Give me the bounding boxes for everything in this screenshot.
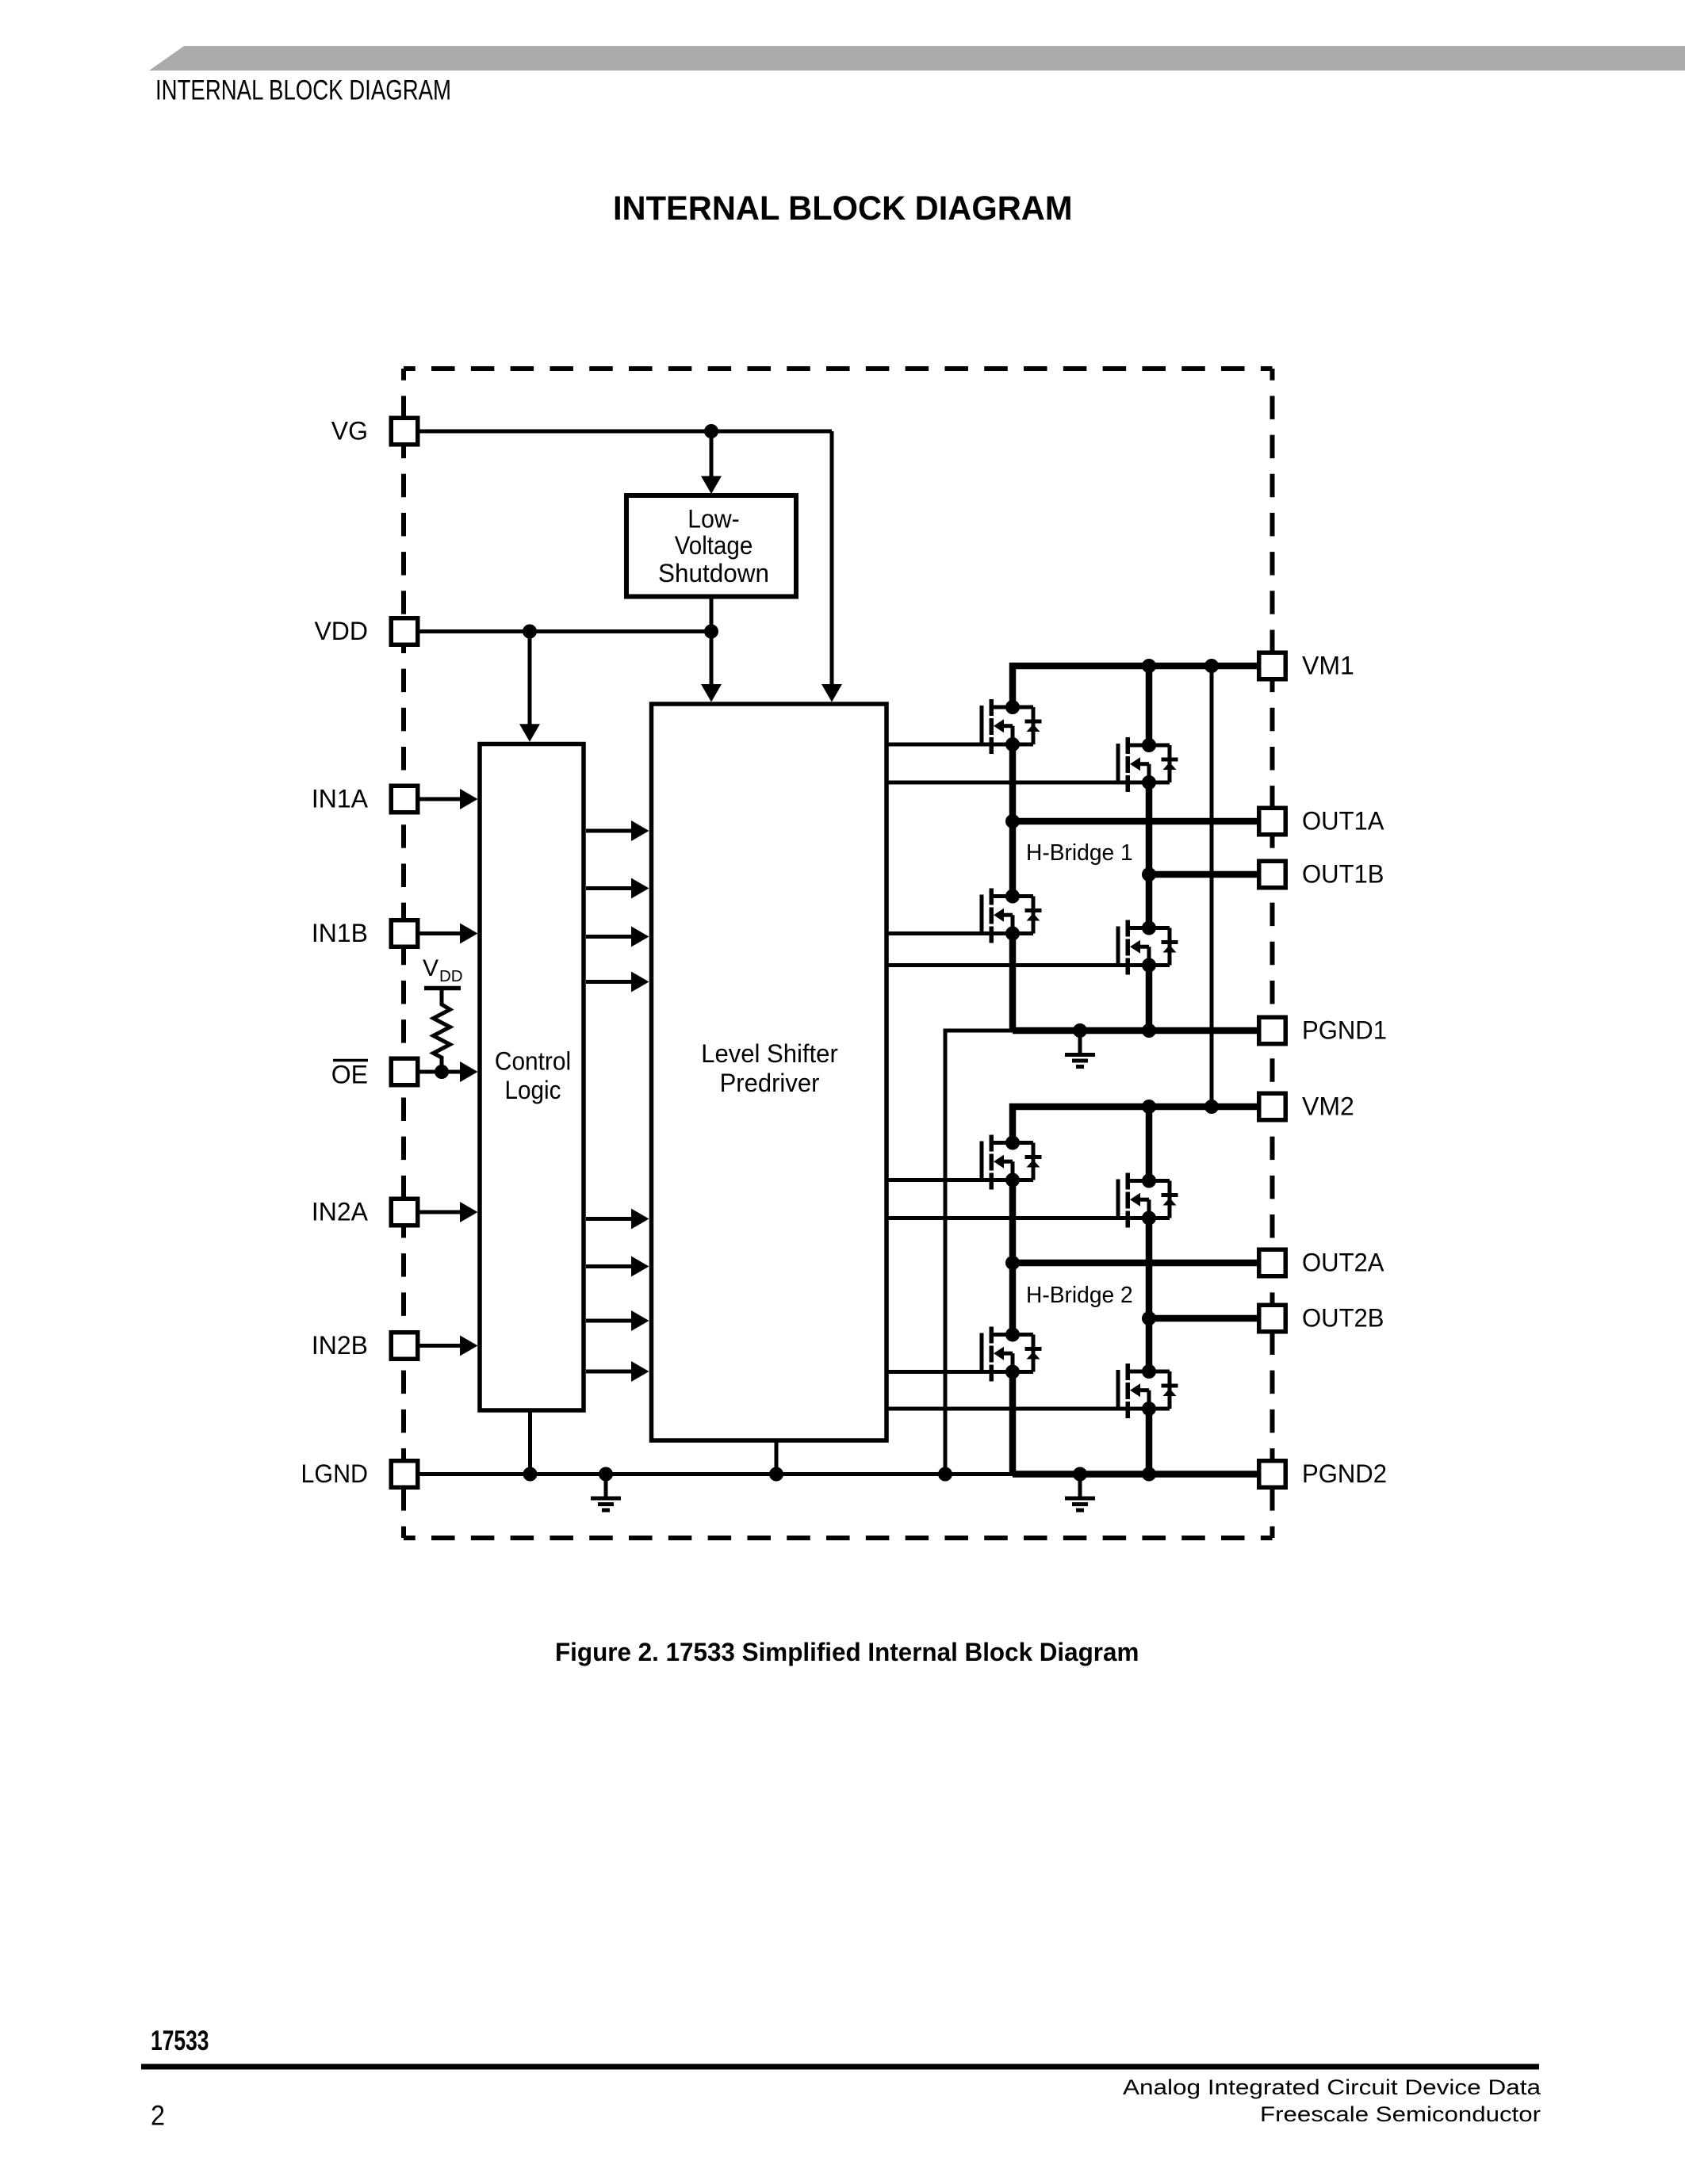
wire predriver to Q3 gate: [887, 931, 1033, 935]
wire VM1 bus: [1013, 666, 1258, 707]
pin LGND: [391, 1461, 418, 1488]
wire VM1 to Q2 drain: [1146, 666, 1153, 745]
pin VM1: [1259, 652, 1286, 679]
svg-text:OUT2A: OUT2A: [1302, 1249, 1384, 1277]
wire control to predriver 8: [586, 1370, 631, 1374]
wire IN2A input: [418, 1211, 461, 1214]
wire PGND1 to ground bus: [945, 1031, 1013, 1474]
wire OUT1A row: [1013, 818, 1258, 825]
svg-text:DD: DD: [439, 967, 463, 985]
svg-text:V: V: [423, 955, 438, 981]
svg-text:OUT2B: OUT2B: [1302, 1304, 1384, 1333]
wire control to predriver 3: [586, 935, 631, 939]
transistor Q1: [980, 699, 1042, 754]
wire control to predriver 2: [586, 886, 631, 890]
svg-text:Predriver: Predriver: [720, 1069, 820, 1097]
pin PGND1: [1259, 1017, 1286, 1044]
svg-text:INTERNAL BLOCK DIAGRAM: INTERNAL BLOCK DIAGRAM: [613, 189, 1073, 228]
node PGND2 Q8 junction: [1142, 1467, 1156, 1482]
IC boundary dashed box: [404, 366, 1273, 371]
wire Q5 source to Q7 drain: [1009, 1180, 1017, 1335]
transistor Q7: [980, 1327, 1042, 1382]
pin VM2: [1259, 1093, 1286, 1120]
node VDD junction 1: [523, 625, 537, 639]
svg-text:H-Bridge 1: H-Bridge 1: [1026, 840, 1133, 866]
node OUT1A junction: [1005, 814, 1020, 828]
pin IN2A: [391, 1199, 418, 1226]
svg-text:IN2B: IN2B: [312, 1331, 368, 1360]
svg-text:IN1B: IN1B: [312, 919, 368, 947]
svg-text:Figure 2. 17533 Simplified Int: Figure 2. 17533 Simplified Internal Bloc…: [555, 1638, 1139, 1666]
wire predriver to Q8 gate: [887, 1407, 1170, 1411]
pin OUT1A: [1259, 808, 1286, 835]
wire VM2 to Q6 drain: [1146, 1107, 1153, 1181]
wire predriver to Q7 gate: [887, 1370, 1033, 1374]
svg-text:Level Shifter: Level Shifter: [701, 1039, 838, 1068]
pin OUT2B: [1259, 1305, 1286, 1332]
svg-text:OUT1A: OUT1A: [1302, 807, 1384, 836]
node OUT1B junction: [1142, 867, 1156, 882]
wire VG to low-voltage shutdown: [710, 431, 714, 478]
pin OUT2A: [1259, 1249, 1286, 1276]
wire LGND row: [418, 1472, 1013, 1476]
svg-text:VM2: VM2: [1302, 1092, 1354, 1121]
wire control to predriver 4: [586, 980, 631, 984]
wire PGND2 row: [1013, 1471, 1258, 1478]
wire OUT1B row: [1149, 871, 1258, 878]
svg-text:Logic: Logic: [505, 1076, 561, 1104]
pin OE: [391, 1058, 418, 1085]
node LGND ground junction: [599, 1467, 613, 1482]
wire Q7 source to PGND2: [1009, 1372, 1017, 1474]
block U2 Control Logic: [480, 744, 584, 1411]
wire predriver to Q5 gate: [887, 1178, 1033, 1182]
wire predriver to Q2 gate: [887, 781, 1170, 785]
svg-text:Voltage: Voltage: [675, 531, 753, 560]
node OUT2A junction: [1005, 1256, 1020, 1270]
svg-text:IN1A: IN1A: [312, 785, 369, 813]
svg-text:OUT1B: OUT1B: [1302, 860, 1384, 889]
pin VDD: [391, 618, 418, 645]
wire VDD to control logic: [528, 632, 532, 725]
wire IN1B input: [418, 931, 461, 935]
pin IN1B: [391, 920, 418, 947]
node LGND predriver junction: [769, 1467, 783, 1482]
node OUT2B junction: [1142, 1311, 1156, 1325]
svg-text:OE: OE: [331, 1061, 368, 1089]
svg-text:IN2A: IN2A: [312, 1198, 369, 1226]
svg-text:2: 2: [151, 2101, 165, 2132]
wire predriver to Q4 gate: [887, 963, 1170, 967]
node VM1 junction Q2: [1142, 659, 1156, 673]
wire VM2 bus: [1013, 1107, 1258, 1143]
wire VM1 to VM2 tie: [1210, 666, 1214, 1107]
transistor Q5: [980, 1135, 1042, 1190]
svg-text:Freescale Semiconductor: Freescale Semiconductor: [1260, 2102, 1541, 2126]
wire Q3 source to PGND1: [1009, 934, 1017, 1031]
transistor Q2: [1116, 737, 1178, 792]
wire Q8 source to PGND2: [1146, 1409, 1153, 1474]
wire OUT2A row: [1013, 1260, 1258, 1267]
wire control to predriver 7: [586, 1319, 631, 1323]
wire IN1A input: [418, 797, 461, 801]
svg-text:Control: Control: [495, 1047, 571, 1076]
svg-text:VDD: VDD: [314, 617, 368, 645]
svg-text:H-Bridge 2: H-Bridge 2: [1026, 1283, 1133, 1308]
wire control to predriver 5: [586, 1217, 631, 1221]
svg-text:Shutdown: Shutdown: [658, 559, 769, 587]
wire control to predriver 1: [586, 829, 631, 833]
wire IN2B input: [418, 1344, 461, 1348]
wire Q4 source to PGND1: [1146, 966, 1153, 1031]
page header gray bar: [149, 46, 1685, 71]
ground PGND2: [1065, 1474, 1095, 1513]
svg-text:LGND: LGND: [301, 1459, 369, 1488]
node VM1 tie junction: [1204, 659, 1219, 673]
wire Q2 source to Q4 drain: [1146, 782, 1153, 928]
wire shutdown output to level shifter: [710, 597, 714, 686]
node PGND1 bus junction: [938, 1467, 952, 1482]
wire level shifter to LGND: [775, 1440, 779, 1474]
node LGND control logic junction: [523, 1467, 538, 1482]
node OE pull-up junction: [435, 1065, 449, 1079]
node PGND1 ground junction: [1073, 1023, 1087, 1038]
ground LGND: [591, 1474, 621, 1513]
footer rule: [141, 2064, 1539, 2070]
pin OUT1B: [1259, 861, 1286, 888]
wire predriver to Q6 gate: [887, 1216, 1170, 1220]
pin VG: [391, 418, 418, 445]
wire VG to level shifter: [830, 431, 834, 685]
node VM2 junction Q6: [1142, 1100, 1156, 1114]
transistor Q4: [1116, 920, 1178, 975]
block U3 Level Shifter Predriver: [652, 704, 887, 1440]
transistor Q8: [1116, 1364, 1178, 1418]
wire OUT2B row: [1149, 1315, 1258, 1322]
node VG junction: [704, 424, 718, 438]
wire control to predriver 6: [586, 1264, 631, 1268]
wire Q1 source to Q3 drain: [1009, 744, 1017, 897]
svg-text:INTERNAL BLOCK DIAGRAM: INTERNAL BLOCK DIAGRAM: [155, 75, 451, 106]
svg-text:VG: VG: [331, 417, 368, 446]
wire VG net: [418, 430, 832, 434]
resistor R1 VDD pull-up: [424, 986, 461, 991]
svg-text:VM1: VM1: [1302, 652, 1354, 680]
wire OE input: [418, 1070, 461, 1074]
wire VDD net: [418, 629, 711, 633]
block U1 Low-Voltage Shutdown: [626, 495, 796, 597]
wire Q6 source to Q8 drain: [1146, 1218, 1153, 1372]
svg-text:PGND1: PGND1: [1302, 1016, 1387, 1045]
pin IN1A: [391, 786, 418, 813]
svg-text:Low-: Low-: [687, 505, 739, 534]
pin IN2B: [391, 1333, 418, 1360]
pin PGND2: [1259, 1461, 1286, 1488]
ground PGND1: [1065, 1031, 1095, 1069]
wire control logic to LGND: [528, 1410, 532, 1474]
transistor Q3: [980, 889, 1042, 943]
node PGND1 Q4 junction: [1142, 1023, 1156, 1038]
wire PGND1 row: [1013, 1027, 1258, 1035]
node VDD junction 2: [704, 625, 718, 639]
svg-text:17533: 17533: [151, 2025, 209, 2056]
svg-text:PGND2: PGND2: [1302, 1459, 1387, 1488]
node PGND2 ground junction: [1073, 1467, 1087, 1482]
wire predriver to Q1 gate: [887, 743, 1033, 747]
svg-text:Analog Integrated Circuit Devi: Analog Integrated Circuit Device Data: [1123, 2075, 1541, 2099]
transistor Q6: [1116, 1173, 1178, 1228]
node VM2 tie junction: [1204, 1100, 1219, 1114]
